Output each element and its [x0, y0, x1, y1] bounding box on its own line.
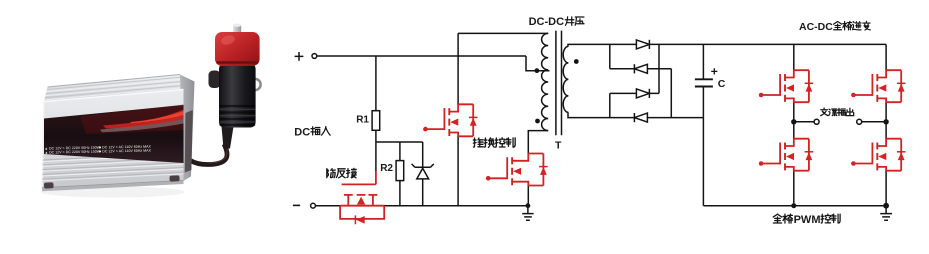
svg-text:T: T — [555, 140, 562, 152]
svg-text:R1: R1 — [356, 114, 369, 125]
svg-text:C: C — [718, 78, 726, 90]
svg-text:AC-DC: AC-DC — [799, 21, 833, 33]
svg-text:PWM: PWM — [794, 214, 821, 226]
svg-text:DC-DC: DC-DC — [529, 16, 564, 28]
svg-text:R2: R2 — [380, 163, 393, 174]
svg-text:DC: DC — [294, 126, 310, 138]
